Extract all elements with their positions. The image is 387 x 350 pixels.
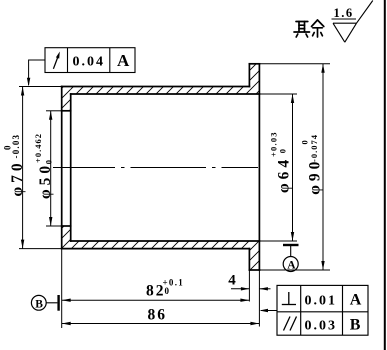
4 dimension line left part	[231, 288, 249, 290]
bore phi50 top line	[62, 110, 71, 112]
phi70 arrows	[21, 87, 24, 96]
qiyu text (rest) hand drawn	[294, 20, 324, 37]
frame leader to right face	[261, 310, 277, 312]
bore phi50 bottom line	[62, 225, 71, 227]
svg-text:0: 0	[278, 149, 288, 153]
svg-text:0.04: 0.04	[73, 55, 106, 70]
flange left face top	[248, 64, 250, 87]
svg-text:φ64: φ64	[276, 156, 293, 193]
phi90 bottom extension	[259, 269, 330, 271]
phi90 top extension	[259, 63, 330, 65]
dimension text phi50	[33, 133, 54, 199]
phi70 bottom extension	[19, 248, 62, 250]
svg-text:A: A	[350, 292, 362, 309]
dimension text phi70	[3, 134, 27, 197]
datum A symbol	[283, 245, 299, 272]
svg-text:0: 0	[300, 140, 310, 144]
svg-text:4: 4	[228, 272, 236, 288]
svg-text:A: A	[287, 260, 296, 272]
lower feature control frames	[277, 285, 368, 335]
flange left face extension down	[248, 270, 250, 302]
hatch body bottom wall	[71, 241, 250, 249]
yu character	[312, 20, 318, 27]
runout leader	[29, 60, 45, 85]
internal step face	[70, 94, 72, 241]
perpendicularity symbol	[282, 292, 296, 305]
phi70 dimension line	[22, 87, 24, 249]
4 arrows outside	[241, 287, 250, 290]
svg-text:φ70: φ70	[9, 159, 26, 196]
flange top surface	[249, 63, 259, 65]
hatch left ring top	[62, 87, 71, 111]
qi character	[298, 22, 300, 33]
svg-text:1.6: 1.6	[334, 6, 354, 20]
82 dimension line	[62, 299, 250, 301]
phi90 arrows	[321, 64, 324, 73]
86 dimension line	[62, 323, 260, 325]
svg-text:0.01: 0.01	[305, 293, 338, 308]
feature control frame runout	[45, 48, 135, 73]
datum B symbol	[31, 295, 58, 311]
bore phi64 bottom line	[71, 240, 260, 242]
body top surface	[62, 86, 250, 88]
left end face	[61, 87, 63, 249]
phi50 top extension	[46, 110, 62, 112]
svg-text:0: 0	[44, 160, 54, 164]
dimension text 82	[146, 277, 184, 299]
phi50 dimension line	[50, 111, 52, 226]
86 arrows	[62, 322, 71, 325]
hatch left ring bottom	[62, 226, 71, 249]
left face extension down	[61, 249, 63, 328]
flange right face extension down	[258, 270, 260, 327]
hatch flange top	[249, 64, 259, 94]
svg-text:0: 0	[165, 286, 170, 296]
svg-text:86: 86	[148, 307, 168, 324]
4 dimension line right part	[259, 288, 270, 290]
roughness symbol	[332, 1, 373, 43]
page border right	[384, 0, 386, 350]
parallelism symbol	[284, 317, 297, 331]
svg-text:0.03: 0.03	[305, 318, 338, 333]
body bottom surface	[62, 248, 250, 250]
flange right face	[258, 64, 260, 270]
runout symbol	[53, 52, 59, 69]
svg-text:B: B	[350, 317, 361, 334]
phi64 arrows	[291, 94, 294, 103]
phi70 top extension	[19, 86, 62, 88]
centerline axis	[53, 167, 258, 169]
hatch flange bottom	[249, 241, 259, 270]
dimension text phi64	[269, 131, 293, 193]
phi64 dimension line	[292, 94, 294, 241]
extension and dimension lines	[19, 64, 330, 328]
phi90 dimension line	[322, 64, 324, 270]
phi50 arrows	[49, 111, 52, 120]
phi50 bottom extension	[46, 225, 62, 227]
dimension text phi90	[300, 134, 324, 195]
svg-text:φ90: φ90	[307, 158, 324, 195]
svg-text:-0.03: -0.03	[11, 134, 21, 159]
svg-text:B: B	[35, 298, 43, 310]
arrowheads	[21, 64, 325, 325]
svg-text:φ50: φ50	[37, 162, 54, 199]
bore phi64 top line	[71, 93, 260, 95]
svg-text:-0.074: -0.074	[309, 134, 319, 162]
flange bottom surface	[249, 269, 259, 271]
phi64 bottom extension	[259, 240, 297, 242]
hatch body top wall	[71, 87, 250, 95]
flange left face bottom	[248, 249, 250, 270]
svg-text:A: A	[117, 51, 130, 70]
82 arrows	[62, 299, 71, 302]
phi64 top extension	[259, 93, 297, 95]
svg-text:+0.462: +0.462	[33, 133, 43, 163]
part outline	[62, 64, 260, 270]
